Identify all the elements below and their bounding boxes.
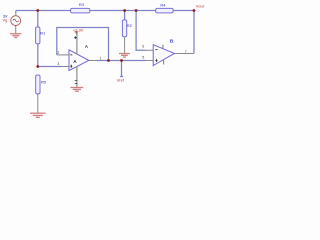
- svg-text:Vout: Vout: [196, 3, 205, 8]
- svg-text:6: 6: [142, 45, 144, 49]
- svg-text:3: 3: [57, 62, 59, 66]
- svg-text:7: 7: [185, 50, 187, 54]
- svg-text:Vg: Vg: [3, 18, 8, 23]
- svg-text:R1: R1: [40, 30, 46, 35]
- svg-text:R4: R4: [160, 3, 166, 8]
- svg-text:A: A: [85, 44, 89, 49]
- svg-text:+3.3V: +3.3V: [73, 27, 84, 32]
- svg-text:2: 2: [57, 51, 59, 55]
- svg-text:R5: R5: [41, 80, 47, 85]
- svg-text:Vref: Vref: [117, 78, 125, 83]
- svg-text:R3: R3: [79, 2, 85, 7]
- svg-text:1: 1: [100, 57, 102, 61]
- svg-text:B: B: [170, 38, 174, 43]
- svg-text:5: 5: [142, 56, 144, 60]
- svg-text:R2: R2: [127, 23, 133, 28]
